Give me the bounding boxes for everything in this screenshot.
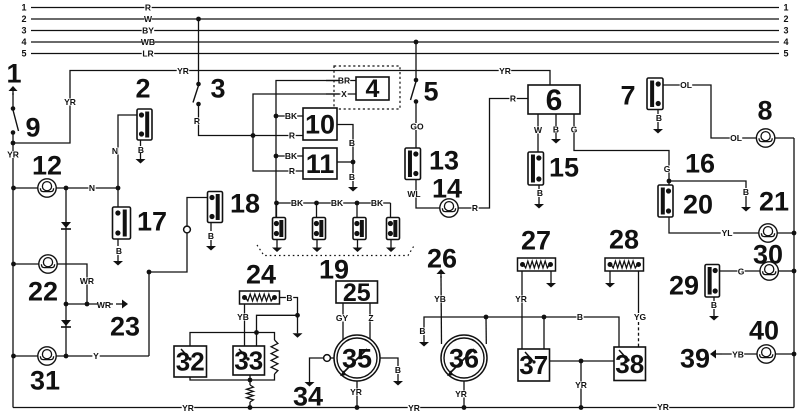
fuse 7 [620,78,663,111]
ground below resistor 28 [605,271,615,288]
lamp 31 [30,347,60,396]
wire switch 5 to fuse 13 [410,102,424,149]
resistor 27 (gauge damper) [518,225,556,271]
resistor to earth below sender 33 [247,380,254,408]
wire gauge 35 to bottom bus [350,381,363,408]
svg-text:YR: YR [177,66,189,76]
sender unit 32 [174,346,207,377]
wire unit 11 B output [337,160,355,165]
wire YL lamp to right bus [777,231,796,236]
label YR on top feed line (left) [177,66,190,76]
ground 34 [293,378,323,411]
wire gauge 35 left terminal [331,357,335,359]
svg-text:G: G [664,164,671,174]
wire fuse 18 to connector [187,198,208,227]
node BK row junctions [274,201,359,206]
wire harness line 3 (BY) [21,25,788,35]
svg-text:28: 28 [609,224,639,254]
unit 4 (relay box) [356,75,389,103]
svg-text:35: 35 [342,343,372,373]
ground below fuse 2 [136,140,146,164]
wire Z lead to gauge 35 [367,303,374,340]
wire harness line 1 (R) [21,2,788,12]
ground below resistor 27 [546,271,556,288]
svg-text:1: 1 [783,3,788,13]
node bottom bus junctions [248,405,584,410]
svg-text:18: 18 [230,188,260,218]
fuse 19c [353,218,366,240]
wire lamp 14 to unit 6 R input [458,93,528,212]
svg-text:B: B [537,188,543,198]
label 40 [749,315,779,345]
svg-text:26: 26 [427,243,457,273]
wire gauge 35 to ground 34 [310,358,324,378]
wire from arrow 1 to switch 9 [12,93,14,109]
wire N junction down to fuse 17 [117,188,119,207]
svg-text:13: 13 [429,145,459,175]
svg-text:3: 3 [21,26,26,36]
wire resistor 24 YB lead to sender 33 [237,304,250,346]
svg-text:10: 10 [305,109,335,139]
wire resistor 27 to sender 37 [515,271,528,349]
wire resistor bottom link [190,374,275,380]
wire harness line 4 (WB) [21,37,788,47]
wire right bus (earth return) [793,138,795,408]
svg-text:27: 27 [521,225,551,255]
svg-text:B: B [208,231,214,241]
junction on line 2 (W) feeding switch 3 [196,17,201,22]
sender unit 33 [233,346,265,376]
svg-text:R: R [289,130,295,140]
svg-text:OL: OL [680,80,692,90]
wire OL from fuse 7 to lamp 8 [663,80,756,143]
svg-text:YR: YR [515,294,527,304]
wire G lamp to right bus [778,269,796,274]
node X bus crosses R wire [251,133,256,138]
svg-text:YR: YR [408,403,420,413]
lamp 30a (tail lamp) [759,224,777,242]
wire BR bus down (x=276) [276,81,339,218]
wire sender net to ground [257,315,298,332]
svg-text:B: B [395,365,401,375]
wire gauge 35 right to ground [380,358,402,375]
switch 9 [11,106,41,142]
svg-text:B: B [577,312,583,322]
wire line2 down to switch 3 [198,19,200,84]
wire YG resistor 28 to sender 38 [634,271,647,347]
wire YB from arrow 26 to gauge 36 [434,276,447,344]
label YR on top feed line (right) [499,66,512,76]
wire harness line 2 (W) [21,14,788,24]
resistor 24 (instrument regulator) [240,259,280,304]
svg-text:B: B [656,113,662,123]
svg-text:23: 23 [110,311,140,341]
svg-text:WL: WL [407,189,420,199]
svg-text:3: 3 [210,74,225,104]
svg-text:4: 4 [366,75,380,103]
ground below fuse 17 [113,239,123,266]
svg-text:B: B [711,300,717,310]
svg-text:2: 2 [21,14,26,24]
fuse 13 [405,145,459,179]
wire fuse 13 to lamp 14 [407,180,439,209]
svg-text:2: 2 [135,74,150,104]
svg-text:B: B [419,326,425,336]
wire switch 9 to YR junction [12,133,14,144]
svg-text:R: R [194,116,200,126]
sender unit 37 (fuel tank sender) [518,349,550,381]
lamp 40 (illumination lamp) [757,345,775,363]
lamp 22 [28,255,58,307]
svg-text:YL: YL [722,228,733,238]
label R into unit 10 [288,130,295,140]
fuse 15 [528,152,579,185]
label 16 [685,148,715,178]
wire sender 33 bottom [249,375,251,380]
fuse 19a [273,218,286,240]
wire BK stub to unit 10 [274,111,303,121]
unit 25 (voltage stabilizer) [336,279,378,307]
fuse 18 [208,188,261,222]
wire sender top rail [190,333,275,347]
fuse 20 [658,185,713,219]
svg-text:YR: YR [455,389,467,399]
wire fuse 2 to N node [111,115,137,188]
svg-text:22: 22 [28,276,58,306]
svg-text:GO: GO [410,121,424,131]
svg-text:LR: LR [142,48,153,58]
svg-text:YR: YR [182,403,194,413]
svg-text:3: 3 [783,26,788,36]
svg-text:G: G [571,124,578,134]
svg-text:YR: YR [575,380,587,390]
svg-text:7: 7 [620,81,635,111]
node fuse 20 input junction [667,179,672,184]
svg-text:38: 38 [615,349,644,379]
wire link sender 37 to 38 [550,360,615,362]
svg-text:4: 4 [783,37,788,47]
lamp 12 (warning lamp) [32,150,62,197]
ground right of gauge 35 [393,374,403,386]
ground below fuse 15 [534,185,544,209]
svg-text:8: 8 [757,96,772,126]
wire lamp 40 to right bus [775,352,796,357]
connector arrow 26 (sender feed) [427,243,457,278]
ground below fuse 19b [312,240,322,253]
svg-text:YB: YB [732,349,744,359]
svg-text:5: 5 [783,49,788,59]
wire BK row into fuse d [390,203,392,218]
ground below fuse 19c [353,240,363,253]
fuse 17 [113,206,168,239]
wire sender 33 second input [256,333,258,347]
wire switch 3 to R node [193,104,303,136]
svg-text:4: 4 [21,37,26,47]
wire lamp 8 to right bus [775,137,794,139]
svg-text:YB: YB [434,294,446,304]
node N junction [64,186,121,191]
ground below fuse 7 [653,110,663,134]
svg-text:33: 33 [234,346,263,376]
svg-text:B: B [349,138,355,148]
fuse 2 [135,74,152,141]
diode between lamp 22 and lamp 31 [61,320,71,327]
wire lamp 12 to N junction [56,183,118,193]
svg-text:YR: YR [350,387,362,397]
ground left of gauge 36 [419,335,429,347]
ground 21 [741,186,789,216]
wire left bus to lamp 22 [11,262,39,267]
sender unit 38 (temperature sender) [614,347,646,381]
ground below fuse 19a [272,240,282,253]
svg-text:21: 21 [759,186,789,216]
svg-text:BK: BK [331,198,344,208]
wire ground rail into sender 37 [543,317,545,349]
svg-text:16: 16 [685,148,715,178]
svg-text:17: 17 [137,206,167,236]
label YR on riser [64,97,76,107]
svg-text:YR: YR [499,66,511,76]
svg-text:W: W [534,125,543,135]
svg-text:39: 39 [680,343,710,373]
node ground rail junction at gauge 36 [484,315,489,320]
wire ground rail down to gauge 36 right [485,317,487,344]
node link junction [579,359,584,364]
wire gauge 36 ground rail [419,312,619,349]
fuse 29 [669,265,720,301]
wire BR from unit 4 [326,75,356,85]
switch 3 [193,74,226,107]
svg-text:BR: BR [338,75,350,85]
node sender net junction [254,330,259,335]
lamp 30b (tail lamp) [760,262,778,280]
wire WR output with arrow [66,300,128,310]
svg-text:GY: GY [336,313,349,323]
junction on line 4 (WB) feeding switch 5 [414,40,419,45]
svg-text:R: R [472,203,478,213]
wire BK distribution row [276,198,391,208]
wire link down to bottom bus [575,361,588,408]
svg-text:G: G [738,266,745,276]
ground for units 10/11 [348,162,358,192]
wire diode chain (22 to 31) [65,264,67,356]
resistor beside sender 33 [271,340,278,374]
svg-text:1: 1 [6,59,21,89]
svg-text:WR: WR [80,276,94,286]
fuse 19b [313,218,326,240]
svg-text:20: 20 [683,189,713,219]
svg-text:N: N [112,146,118,156]
wire left bus to lamp 31 [11,354,38,359]
svg-text:37: 37 [519,350,548,380]
svg-text:YB: YB [237,312,249,322]
wire gauge 36 to bottom bus [455,381,468,408]
svg-text:YR: YR [7,149,19,159]
wire X from unit 4 [326,89,356,99]
svg-text:B: B [116,246,122,256]
svg-text:11: 11 [306,149,335,179]
wire BK row into fuse a [276,203,278,218]
svg-text:YR: YR [64,97,76,107]
svg-text:R: R [510,93,516,103]
svg-text:R: R [145,2,151,12]
ground below fuse 19d [386,240,396,253]
node ground net junction [295,313,300,318]
svg-text:BK: BK [291,198,304,208]
svg-text:Y: Y [93,351,99,361]
wire BK row into fuse c [356,203,358,218]
node lamp 31 right junction [64,354,69,359]
ground unit 6 B lead [551,114,561,144]
switch 5 [411,77,439,107]
svg-text:9: 9 [25,112,40,142]
svg-text:25: 25 [343,279,371,307]
wire connector down to Y node [147,233,187,356]
svg-text:YR: YR [657,402,669,412]
svg-text:31: 31 [30,365,60,395]
ground below fuse 18 [206,223,216,251]
svg-text:2: 2 [783,14,788,24]
label 23 [110,311,140,341]
unit 10 (flasher unit) [303,108,337,140]
svg-text:5: 5 [423,77,438,107]
gauge 36 (temperature gauge) [441,335,487,381]
svg-text:5: 5 [21,49,26,59]
svg-text:BK: BK [285,111,298,121]
wire resistor 24 B lead [280,293,298,315]
svg-text:X: X [341,89,347,99]
svg-text:Z: Z [368,313,373,323]
wire diode chain (lamp 12 to lamp 22) [65,188,67,264]
wire bottom bus (YR earth return) [13,402,794,413]
wire Y from lamp 31 to sender feed [56,351,149,361]
fuse 19d [387,218,400,240]
wire line4 down to switch 5 [415,42,417,80]
node sender bottom junction [248,378,253,383]
gauge 35 (fuel gauge) [334,335,380,381]
svg-text:29: 29 [669,270,699,300]
svg-text:WB: WB [141,37,155,47]
resistor 28 (gauge damper) [605,224,644,271]
svg-text:1: 1 [21,3,26,13]
ground for resistor 24 net [293,315,303,338]
dashed enclosure around unit 4 [334,66,400,109]
svg-text:N: N [89,183,95,193]
label 14 [432,173,462,203]
node ground rail junction to sender 37 [542,315,547,320]
node YR junction below switch 9 [11,141,16,146]
wire BK row into fuse b [316,203,318,218]
svg-text:32: 32 [176,347,205,377]
svg-text:BK: BK [371,198,384,208]
unit 11 (relay) [303,148,337,179]
wire fuse 20 to YL lamp [669,217,759,238]
svg-text:24: 24 [246,259,276,289]
svg-text:BK: BK [285,151,298,161]
wire G from fuse 29 to lamp [720,266,761,276]
unit 6 (control unit) [528,84,580,117]
svg-text:36: 36 [449,343,479,373]
svg-text:B: B [553,124,559,134]
wire left bus to lamp 12 [11,186,38,191]
label 30 [753,239,783,269]
svg-text:WR: WR [97,300,111,310]
node WR junction [64,302,90,307]
svg-text:YG: YG [634,312,647,322]
svg-text:6: 6 [546,84,563,117]
wire unit 6 G lead to fuse 20 [570,114,670,185]
diode between lamp 12 and lamp 22 [61,222,71,229]
svg-text:OL: OL [730,133,742,143]
wire X bus down (x=253) [253,94,339,176]
svg-text:15: 15 [549,152,579,182]
svg-text:R: R [289,166,295,176]
lamp 8 (main beam lamp) [756,96,774,148]
svg-text:12: 12 [32,150,62,180]
wire left bus down from YR junction [7,143,20,408]
wire BK stub to unit 11 [274,151,303,161]
connector (in-line) below fuse 18 [184,226,191,233]
wire lamp 22 right to WR drop [57,264,94,304]
wire B branch to ground (21) [669,181,750,197]
svg-text:40: 40 [749,315,779,345]
wire unit 6 W lead to fuse 15 [534,114,543,152]
wire YR riser to top feed line [13,71,550,144]
svg-text:W: W [144,14,153,24]
svg-text:B: B [743,187,749,197]
wire harness line 5 (LR) [21,48,788,58]
svg-text:BY: BY [142,25,154,35]
dashed outline of connector group 19 [257,245,415,284]
connector arrow 1 (external feed) [6,59,21,96]
svg-text:B: B [349,172,355,182]
lamp 14 (warning lamp) [440,199,458,217]
ground below fuse 29 [709,297,719,321]
wire YB output arrow 39 [680,343,757,373]
wire unit 10 B output [337,125,356,163]
svg-text:B: B [286,293,292,303]
wire GY lead to gauge 35 [336,303,349,341]
connector circle at gauge 35 [324,355,331,362]
